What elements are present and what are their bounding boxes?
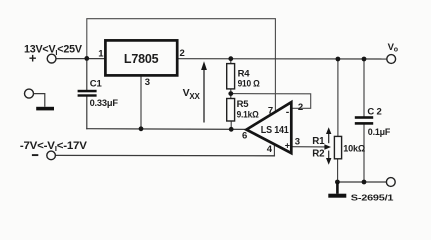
wire C2 bottom — [363, 125, 365, 182]
svg-text:10kΩ: 10kΩ — [343, 144, 365, 155]
wire op-amp pin 3 to wiper — [292, 146, 327, 148]
terminal chassis ground — [25, 89, 45, 107]
node input junction — [84, 56, 89, 61]
wire R4 top stub — [230, 59, 232, 64]
node pot bottom junction — [335, 180, 340, 185]
ground symbol left — [36, 107, 54, 111]
wire output rail — [177, 58, 386, 60]
node divider junction — [228, 91, 233, 96]
svg-text:4: 4 — [267, 144, 273, 155]
wire C1 branch — [86, 58, 88, 90]
svg-text:R2: R2 — [312, 149, 325, 160]
svg-text:2: 2 — [298, 102, 303, 113]
node pin3 mid-rail junction — [139, 126, 144, 131]
wire divider junction to op-amp pin 2 — [231, 94, 311, 109]
wire negative input rail — [55, 154, 274, 156]
capacitor C2 — [355, 107, 391, 138]
svg-text:7: 7 — [268, 106, 273, 117]
wire potentiometer bottom — [337, 159, 339, 182]
terminal -V input — [47, 151, 56, 160]
svg-text:9.1kΩ: 9.1kΩ — [237, 109, 260, 120]
svg-text:+: + — [285, 141, 290, 151]
svg-text:6: 6 — [242, 131, 247, 142]
node R4 top junction — [228, 56, 233, 61]
wire mid rail (Vxx reference) — [87, 128, 247, 131]
svg-text:S-2695/1: S-2695/1 — [351, 192, 394, 202]
svg-text:R5: R5 — [237, 99, 250, 110]
svg-text:C1: C1 — [90, 78, 103, 89]
wire op-amp pin 4 to negative rail — [273, 144, 275, 155]
svg-text:910 Ω: 910 Ω — [238, 79, 261, 90]
wire input rail to pin 1 — [56, 58, 105, 60]
capacitor C1 — [78, 78, 119, 109]
node R5 bottom junction — [229, 127, 234, 132]
terminal output ground — [386, 178, 395, 187]
terminal +V input — [47, 54, 56, 63]
svg-text:R1: R1 — [312, 136, 325, 147]
svg-text:0.1μF: 0.1μF — [368, 127, 391, 138]
terminal Vo output — [387, 55, 396, 64]
wire R4-R5 stub — [230, 89, 232, 99]
wire R5 bottom stub — [230, 121, 232, 129]
wire bottom ground rail — [337, 181, 386, 183]
svg-text:3: 3 — [145, 77, 150, 88]
wire L7805 pin 3 to mid rail — [140, 76, 142, 129]
potentiometer R1/R2 10k — [334, 136, 365, 158]
wiper arrowhead — [324, 144, 331, 150]
wiper travel arrow — [326, 127, 331, 165]
svg-text:3: 3 — [295, 137, 300, 148]
label minus sign — [32, 154, 38, 156]
regulator U1 L7805 — [105, 40, 177, 75]
svg-text:-7V<-VI<-17V: -7V<-VI<-17V — [20, 140, 87, 153]
wire potentiometer top — [337, 59, 339, 136]
svg-text:0.33μF: 0.33μF — [90, 98, 119, 109]
svg-text:13V<VI<25V: 13V<VI<25V — [24, 44, 82, 57]
node C2 top junction — [362, 57, 367, 62]
node pot top junction — [336, 57, 341, 62]
wire top loop to op-amp pin 7 — [87, 19, 276, 113]
resistor R4 — [227, 64, 260, 90]
svg-text:C 2: C 2 — [367, 107, 381, 118]
node C2 bottom junction — [362, 180, 367, 185]
svg-text:2: 2 — [180, 48, 185, 59]
svg-text:LS 141: LS 141 — [261, 125, 289, 136]
op-amp U2 LS141 — [246, 102, 291, 153]
resistor R5 — [227, 99, 259, 122]
svg-text:1: 1 — [98, 49, 104, 60]
wire C2 top — [363, 59, 365, 116]
annotation Vxx arrow — [183, 61, 207, 122]
ground symbol output — [328, 182, 346, 198]
svg-text:L7805: L7805 — [124, 51, 158, 66]
